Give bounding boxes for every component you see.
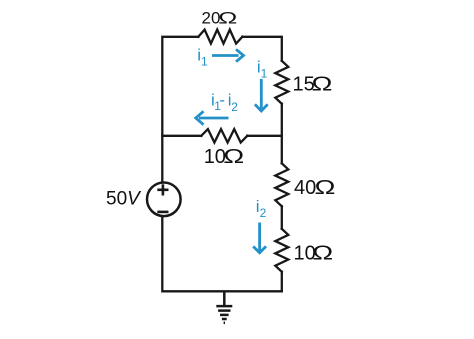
svg-text:-: - bbox=[219, 91, 225, 110]
wire right mid segment bbox=[281, 104, 283, 164]
svg-text:Ω: Ω bbox=[218, 8, 237, 28]
svg-text:i2: i2 bbox=[256, 197, 267, 220]
wire middle branch right part bbox=[247, 135, 281, 137]
current arrow i2 down bbox=[253, 223, 266, 253]
resistor 10ohm right zigzag bbox=[275, 229, 288, 272]
current arrow i1-i2 left (middle branch) bbox=[196, 111, 229, 124]
svg-text:i1: i1 bbox=[257, 57, 268, 80]
resistor 15ohm zigzag bbox=[275, 61, 288, 104]
svg-text:Ω: Ω bbox=[315, 177, 336, 199]
label 10ohm right bbox=[294, 242, 334, 264]
wire right between 40ohm and 10ohm bbox=[281, 206, 283, 229]
wire right bottom segment bbox=[281, 272, 283, 292]
label 15ohm bbox=[293, 73, 333, 95]
voltage source plus sign bbox=[157, 184, 168, 195]
current arrow i1 right (top) bbox=[212, 49, 244, 61]
resistor 40ohm zigzag bbox=[275, 163, 288, 206]
voltage source V1 circle bbox=[147, 183, 181, 217]
wire top-right segment bbox=[242, 37, 281, 61]
svg-text:Ω: Ω bbox=[223, 146, 244, 168]
svg-text:40: 40 bbox=[294, 177, 316, 199]
wire top-left segment bbox=[162, 37, 198, 183]
label 20ohm bbox=[202, 8, 238, 28]
svg-text:Ω: Ω bbox=[312, 73, 333, 95]
label 10ohm middle bbox=[204, 146, 244, 168]
resistor R 20ohm zigzag bbox=[198, 30, 242, 44]
label 40ohm bbox=[294, 177, 335, 199]
svg-text:Ω: Ω bbox=[312, 242, 333, 264]
wire middle branch left part bbox=[162, 135, 201, 137]
resistor 10ohm middle zigzag bbox=[201, 129, 247, 142]
svg-text:50V: 50V bbox=[106, 189, 142, 210]
voltage source minus sign bbox=[157, 211, 168, 214]
svg-text:2: 2 bbox=[231, 100, 238, 114]
svg-text:i1: i1 bbox=[197, 45, 208, 68]
current arrow i1 down (right branch) bbox=[255, 79, 268, 111]
ground symbol bbox=[216, 291, 232, 323]
label i1-i2 bbox=[211, 91, 238, 115]
wire bottom segment bbox=[162, 217, 281, 291]
